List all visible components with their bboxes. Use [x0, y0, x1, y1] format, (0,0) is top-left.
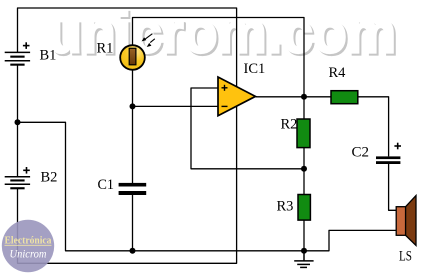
wire: op-amp output to R4	[256, 96, 332, 98]
svg-text:R4: R4	[329, 65, 347, 81]
node: C1 ground junction	[130, 248, 136, 254]
node: R3 ground junction	[301, 248, 307, 254]
label C1	[98, 177, 115, 193]
svg-text:Unicrom: Unicrom	[10, 249, 47, 261]
label B1	[40, 48, 57, 64]
svg-text:C1: C1	[98, 177, 115, 193]
op-amp IC1	[218, 77, 255, 116]
watermark unicrom.com	[48, 0, 398, 67]
label R3	[277, 199, 294, 215]
node: op-amp output junction	[301, 94, 307, 100]
wire: R4 right to C2 top	[358, 97, 389, 157]
battery B1	[5, 42, 30, 65]
svg-text:R2: R2	[281, 117, 298, 133]
wire: divider node to op-amp non-inverting input	[191, 88, 304, 169]
wire: R1 top to rail y17 down to divider vertical	[133, 18, 305, 120]
label R1	[97, 41, 114, 57]
wire: battery midpoint tap to ground run and speaker bottom	[18, 122, 397, 251]
logo Electronica Unicrom	[2, 220, 54, 272]
wire: R3 bottom to ground node	[303, 220, 305, 251]
svg-text:B1: B1	[40, 48, 57, 64]
wire: C1 bottom to ground run	[132, 195, 134, 251]
svg-text:R1: R1	[97, 41, 114, 57]
node: battery midpoint junction	[15, 119, 21, 125]
label R4	[329, 65, 347, 81]
wire: R2 bottom to R3 top	[303, 148, 305, 195]
svg-text:R3: R3	[277, 199, 294, 215]
wire: inverting input node to op-amp	[133, 105, 219, 107]
svg-text:LS: LS	[399, 249, 412, 265]
speaker LS	[396, 196, 416, 246]
wire: B1- to B2+ series link	[17, 65, 19, 176]
photoresistor R1	[120, 34, 155, 70]
label R2	[281, 117, 298, 133]
svg-text:C2: C2	[352, 145, 370, 161]
label B2	[41, 170, 58, 186]
resistor R4	[331, 91, 358, 104]
resistor R3	[298, 195, 310, 221]
label LS	[399, 249, 412, 265]
wire: R1 bottom to inverting input node	[132, 70, 134, 107]
svg-text:IC1: IC1	[244, 61, 266, 77]
wire: supply loop B1+ top rail, op-amp supply vertical, bottom rail to B2-	[18, 8, 237, 263]
node: divider junction	[301, 166, 307, 172]
node: inverting input junction	[130, 103, 136, 109]
label IC1	[244, 61, 266, 77]
wire: inverting node down to C1 top	[132, 106, 134, 183]
resistor R2	[297, 119, 310, 148]
svg-text:B2: B2	[41, 170, 58, 186]
wire: C2 bottom to speaker top terminal	[389, 164, 397, 210]
ground	[294, 251, 313, 268]
label C2	[352, 145, 370, 161]
capacitor C1	[119, 183, 147, 195]
capacitor C2	[376, 143, 401, 164]
battery B2	[5, 167, 30, 189]
